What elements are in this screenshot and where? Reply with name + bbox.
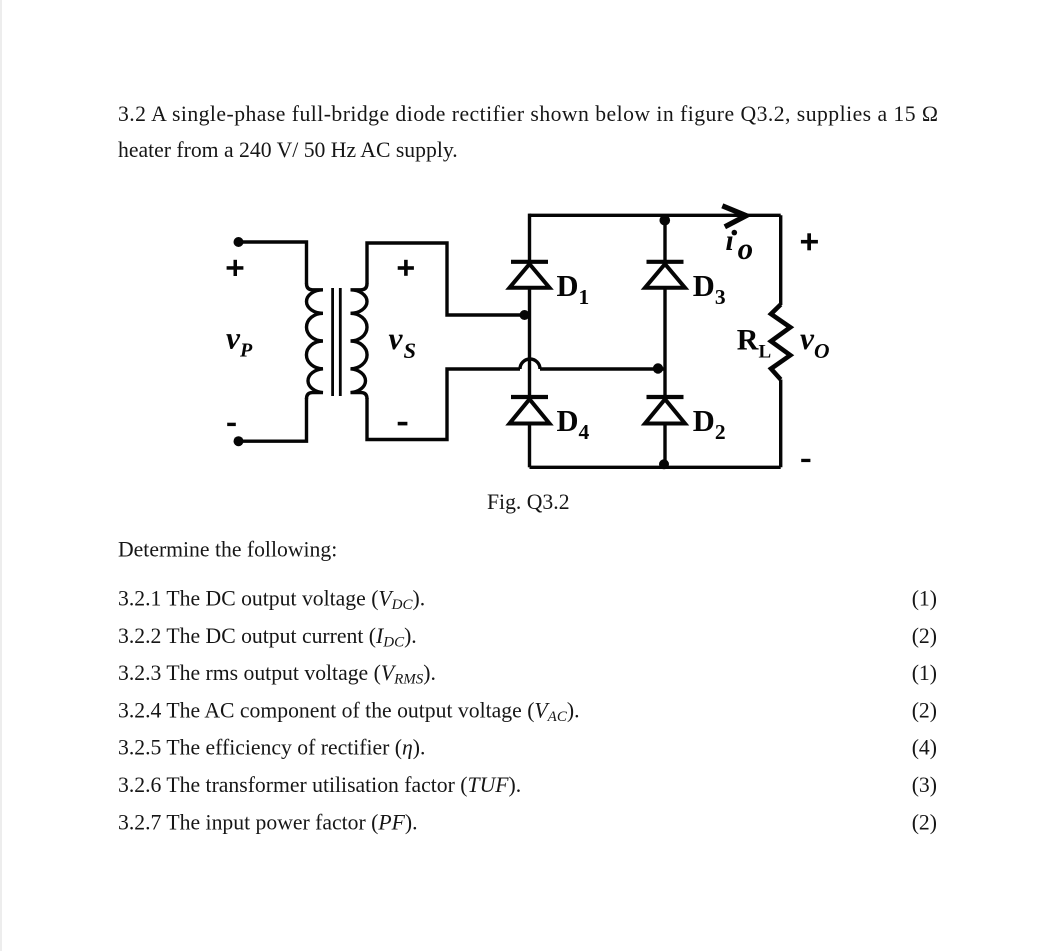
- label + (output): [801, 233, 818, 250]
- resistor RL: [771, 305, 790, 380]
- label + (secondary): [398, 260, 414, 276]
- node: top rail / D3 branch: [660, 215, 671, 226]
- wire: secondary top lead: [367, 243, 524, 315]
- wire: top rail: [530, 214, 781, 217]
- wire: primary top lead: [239, 242, 307, 284]
- arrow io on top rail: [722, 206, 746, 227]
- svg-text:Fig. Q3.2: Fig. Q3.2: [487, 490, 570, 514]
- wire: middle branch upper: [663, 215, 666, 261]
- primary top terminal dot: [234, 237, 244, 247]
- svg-text:(2): (2): [912, 624, 937, 648]
- wire: bottom rail: [530, 466, 781, 469]
- secondary winding: [351, 284, 368, 399]
- label - (output): [801, 459, 810, 462]
- wire: primary bottom lead: [239, 398, 307, 441]
- svg-text:Determine the following:: Determine the following:: [118, 538, 337, 562]
- svg-text:heater from a 240 V/ 50 Hz AC: heater from a 240 V/ 50 Hz AC supply.: [118, 138, 458, 162]
- label - (secondary): [398, 422, 408, 426]
- svg-text:3.2.4 The AC component of the: 3.2.4 The AC component of the output vol…: [118, 698, 580, 725]
- svg-text:3.2.3 The rms output voltage (: 3.2.3 The rms output voltage (VRMS).: [118, 661, 436, 688]
- wire: secondary bottom to D3-D2 junction: [540, 367, 665, 370]
- svg-text:3.2.2 The DC output current (I: 3.2.2 The DC output current (IDC).: [118, 624, 417, 651]
- svg-text:3.2.7 The input power factor (: 3.2.7 The input power factor (PF).: [118, 810, 418, 834]
- svg-text:(3): (3): [912, 773, 937, 797]
- diode D4: [510, 397, 550, 424]
- wire: left branch middle: [528, 288, 531, 397]
- wire: secondary top into bridge: [524, 313, 530, 316]
- svg-text:(1): (1): [912, 587, 937, 611]
- diode D2: [645, 397, 685, 424]
- diode D1: [510, 262, 550, 288]
- wire: secondary bottom lead: [367, 369, 520, 440]
- node: secondary bottom to D3-D2 junction: [653, 363, 663, 373]
- wire: left branch lower: [528, 424, 531, 468]
- wire: middle branch middle: [663, 288, 666, 397]
- label - (primary): [227, 423, 236, 426]
- svg-text:(2): (2): [912, 698, 937, 722]
- svg-text:3.2.1 The DC output voltage (V: 3.2.1 The DC output voltage (VDC).: [118, 587, 425, 614]
- wire: middle branch lower: [663, 424, 666, 468]
- svg-text:(1): (1): [912, 661, 937, 685]
- transformer core: [333, 288, 341, 396]
- svg-text:3.2.6 The transformer utilisat: 3.2.6 The transformer utilisation factor…: [118, 773, 521, 797]
- svg-text:(2): (2): [912, 810, 937, 834]
- wire: right branch upper: [779, 215, 782, 305]
- svg-text:3.2.5 The efficiency of rectif: 3.2.5 The efficiency of rectifier (η).: [118, 736, 425, 760]
- diode D3: [645, 262, 685, 288]
- svg-text:(4): (4): [912, 736, 937, 760]
- wire: left branch upper: [528, 214, 531, 261]
- svg-text:3.2 A single-phase full-bridge: 3.2 A single-phase full-bridge diode rec…: [118, 102, 938, 126]
- label + (primary): [227, 260, 244, 276]
- node: secondary top to D1-D4 junction: [520, 310, 530, 320]
- primary bottom terminal dot: [234, 436, 244, 446]
- primary winding: [306, 284, 323, 399]
- wire: right branch lower: [779, 380, 782, 468]
- wire hop over left branch: [520, 359, 540, 369]
- node: bottom rail / D2 branch: [659, 459, 669, 469]
